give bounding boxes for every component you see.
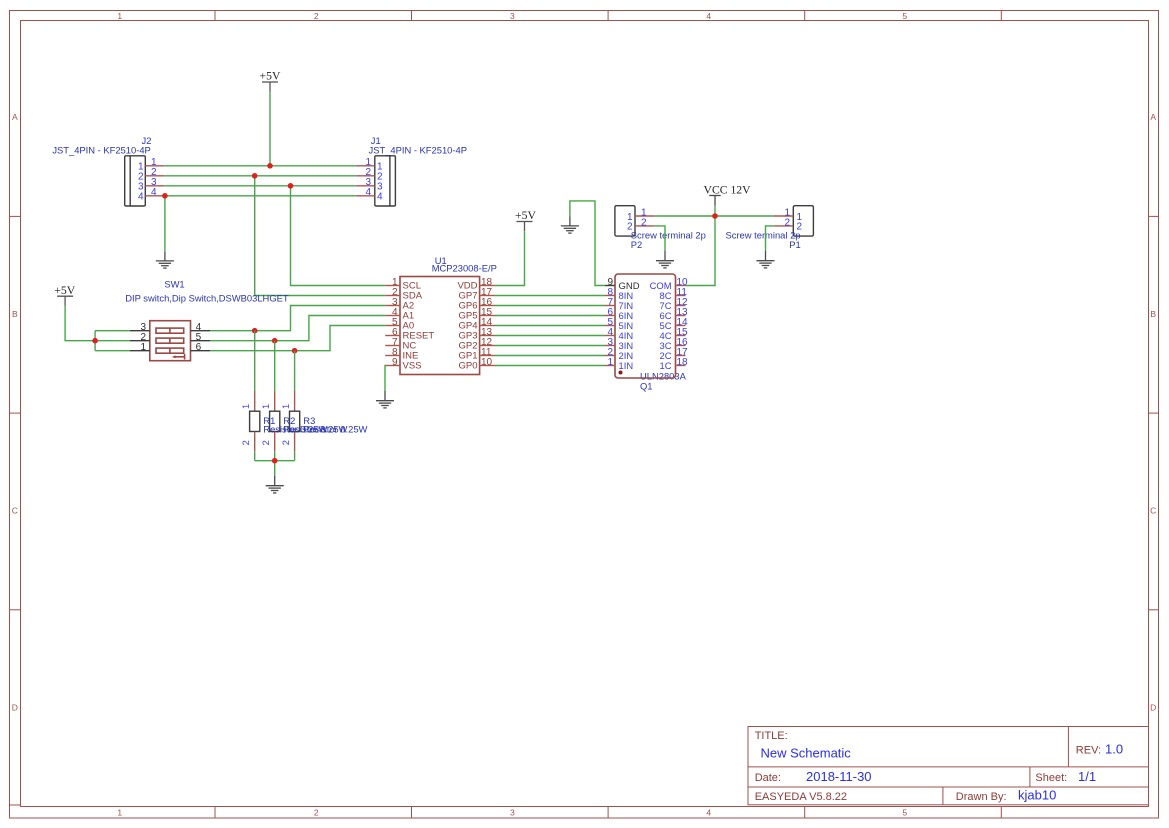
svg-text:+5V: +5V xyxy=(54,284,75,297)
svg-text:P2: P2 xyxy=(631,239,642,250)
svg-text:GP0: GP0 xyxy=(458,361,477,372)
svg-text:JST_4PIN - KF2510-4P: JST_4PIN - KF2510-4P xyxy=(52,144,150,155)
wire SW1.4 to U1.A2 xyxy=(210,306,385,331)
ground (Q1 GND net) xyxy=(561,216,579,233)
svg-text:2: 2 xyxy=(314,808,319,818)
wire SW1.5 to U1.A1 xyxy=(210,316,385,341)
svg-text:P1: P1 xyxy=(789,239,800,250)
svg-text:1C: 1C xyxy=(660,360,672,371)
title block xyxy=(748,727,1149,805)
svg-text:VCC 12V: VCC 12V xyxy=(704,184,752,197)
svg-text:Sheet:: Sheet: xyxy=(1035,772,1067,784)
wire U1.GP1 to Q1.2IN xyxy=(495,355,606,357)
wire pin3 bus down to U1.SCL xyxy=(291,186,386,286)
junction pin2/SDA xyxy=(252,173,258,179)
svg-text:Q1: Q1 xyxy=(640,380,653,391)
svg-text:Resistor 0.25W: Resistor 0.25W xyxy=(303,424,367,435)
wire U1.GP4 to Q1.5IN xyxy=(495,325,606,327)
svg-text:Drawn By:: Drawn By: xyxy=(956,791,1007,803)
svg-text:New Schematic: New Schematic xyxy=(761,745,852,760)
svg-text:1: 1 xyxy=(260,404,271,409)
svg-text:2018-11-30: 2018-11-30 xyxy=(806,769,872,784)
wire J2.1 to J1.1 xyxy=(164,165,355,167)
svg-text:2: 2 xyxy=(260,440,271,445)
svg-text:2: 2 xyxy=(314,11,319,21)
connector P2 Screw terminal 2p xyxy=(615,206,706,250)
wire VCC to P2.1 xyxy=(654,215,715,217)
svg-text:1.0: 1.0 xyxy=(1105,742,1123,757)
wire P2.2 to ground xyxy=(654,226,665,251)
connector J2 JST_4PIN - KF2510-4P xyxy=(52,135,164,206)
resistor R1 Resistor 0.25W xyxy=(240,331,260,461)
svg-text:1: 1 xyxy=(240,404,251,409)
svg-text:1: 1 xyxy=(140,342,146,353)
svg-text:2: 2 xyxy=(240,440,251,445)
svg-text:6: 6 xyxy=(196,342,202,353)
label R3 xyxy=(303,415,367,435)
svg-text:4: 4 xyxy=(365,187,371,198)
power VCC 12V xyxy=(704,184,752,206)
ground (J2 pin4) xyxy=(156,251,174,268)
wire U1.VSS to ground xyxy=(384,366,386,392)
svg-text:1/1: 1/1 xyxy=(1078,769,1096,784)
svg-text:A: A xyxy=(12,112,18,122)
wire +5V to J bus pin1 xyxy=(269,92,271,166)
svg-text:A: A xyxy=(1150,112,1156,122)
svg-text:1: 1 xyxy=(280,404,291,409)
svg-text:4: 4 xyxy=(151,187,157,198)
svg-text:4: 4 xyxy=(377,192,383,203)
svg-text:4: 4 xyxy=(706,808,711,818)
junction R3 top xyxy=(292,348,298,354)
wire VCC to P1.1 xyxy=(715,215,774,217)
svg-text:kjab10: kjab10 xyxy=(1018,788,1056,803)
connector J1 JST_4PIN - KF2510-4P xyxy=(356,135,467,206)
svg-text:4: 4 xyxy=(138,192,144,203)
svg-text:C: C xyxy=(12,506,18,516)
junction R2 top xyxy=(272,338,278,344)
power +5V (left) xyxy=(54,284,75,306)
label R2 xyxy=(283,415,347,435)
junction resistor gnd xyxy=(272,458,278,464)
wire VCC down to Q1.COM xyxy=(686,216,716,286)
ground (P1.2) xyxy=(757,251,775,268)
resistor R2 Resistor 0.25W xyxy=(260,341,280,461)
power +5V (above U1) xyxy=(515,209,536,231)
svg-text:C: C xyxy=(1150,506,1156,516)
svg-text:2: 2 xyxy=(784,217,790,228)
wire ground to Q1.GND xyxy=(570,201,605,286)
svg-text:2: 2 xyxy=(280,440,291,445)
wire J2.4 to J1.4 xyxy=(165,195,356,197)
wire U1.GP0 to Q1.1IN xyxy=(495,365,606,367)
wire +5V to SW1 pins 1,2,3 xyxy=(65,306,130,341)
svg-text:SW1: SW1 xyxy=(164,279,184,290)
junction +5V/pin1 xyxy=(267,163,273,169)
svg-text:10: 10 xyxy=(481,357,493,368)
svg-text:MCP23008-E/P: MCP23008-E/P xyxy=(432,263,497,274)
wire J2.3 to J1.3 xyxy=(164,185,355,187)
svg-text:4: 4 xyxy=(706,11,711,21)
wire U1.GP3 to Q1.4IN xyxy=(495,335,606,337)
svg-text:Date:: Date: xyxy=(755,772,781,784)
svg-text:B: B xyxy=(12,309,18,319)
svg-text:9: 9 xyxy=(392,357,398,368)
IC U1 MCP23008-E/P xyxy=(385,255,497,375)
wire U1.GP6 to Q1.7IN xyxy=(495,305,606,307)
junction VCC xyxy=(712,213,718,219)
wire J2.2 to J1.2 xyxy=(164,175,355,177)
svg-text:5: 5 xyxy=(902,11,907,21)
wire pin2 bus down to U1.SDA xyxy=(255,176,386,296)
power +5V (top) xyxy=(260,70,281,92)
junction J2.4 xyxy=(162,193,168,199)
resistor R3 Resistor 0.25W xyxy=(280,351,300,461)
svg-text:1IN: 1IN xyxy=(619,360,634,371)
svg-text:5: 5 xyxy=(902,808,907,818)
wire U1.GP5 to Q1.6IN xyxy=(495,315,606,317)
wire U1.GP2 to Q1.3IN xyxy=(495,345,606,347)
svg-text:D: D xyxy=(12,702,18,712)
wire U1.VDD to +5V xyxy=(495,231,525,285)
svg-text:+5V: +5V xyxy=(515,209,536,222)
svg-text:JST_4PIN - KF2510-4P: JST_4PIN - KF2510-4P xyxy=(369,144,467,155)
wire resistor bottoms to ground xyxy=(255,460,295,462)
wire U1.GP7 to Q1.8IN xyxy=(495,295,606,297)
svg-text:1: 1 xyxy=(607,357,613,368)
wire P1.2 to ground xyxy=(766,226,775,251)
connector P1 Screw terminal 2p xyxy=(725,206,813,250)
label R1 xyxy=(263,415,327,435)
svg-text:3: 3 xyxy=(510,11,515,21)
wire SW1.6 to U1.A0 xyxy=(210,326,385,351)
ground (U1 VSS) xyxy=(376,391,394,408)
ground (P2.2) xyxy=(656,251,674,268)
wire VCC stem xyxy=(714,206,716,216)
svg-text:REV:: REV: xyxy=(1076,745,1101,757)
junction pin3/SCL xyxy=(288,183,294,189)
wire J2.4 to ground xyxy=(164,196,166,251)
svg-text:1: 1 xyxy=(117,808,122,818)
svg-text:VSS: VSS xyxy=(403,361,422,372)
transistor-array Q1 ULN2803A xyxy=(605,274,688,391)
svg-text:EASYEDA V5.8.22: EASYEDA V5.8.22 xyxy=(755,791,847,803)
svg-text:TITLE:: TITLE: xyxy=(755,730,788,742)
svg-text:B: B xyxy=(1150,309,1156,319)
svg-text:+5V: +5V xyxy=(260,70,281,83)
ground (resistors) xyxy=(266,476,284,493)
svg-text:DIP switch,Dip Switch,DSWB03LH: DIP switch,Dip Switch,DSWB03LHGET xyxy=(125,293,289,304)
svg-text:3: 3 xyxy=(510,808,515,818)
svg-text:D: D xyxy=(1150,702,1156,712)
junction R1 top xyxy=(252,328,258,334)
svg-text:1: 1 xyxy=(117,11,122,21)
switch SW1 DIP DSWB03LHGET xyxy=(125,279,289,361)
svg-text:2: 2 xyxy=(641,217,647,228)
svg-text:18: 18 xyxy=(677,357,689,368)
junction SW1 left xyxy=(92,338,98,344)
